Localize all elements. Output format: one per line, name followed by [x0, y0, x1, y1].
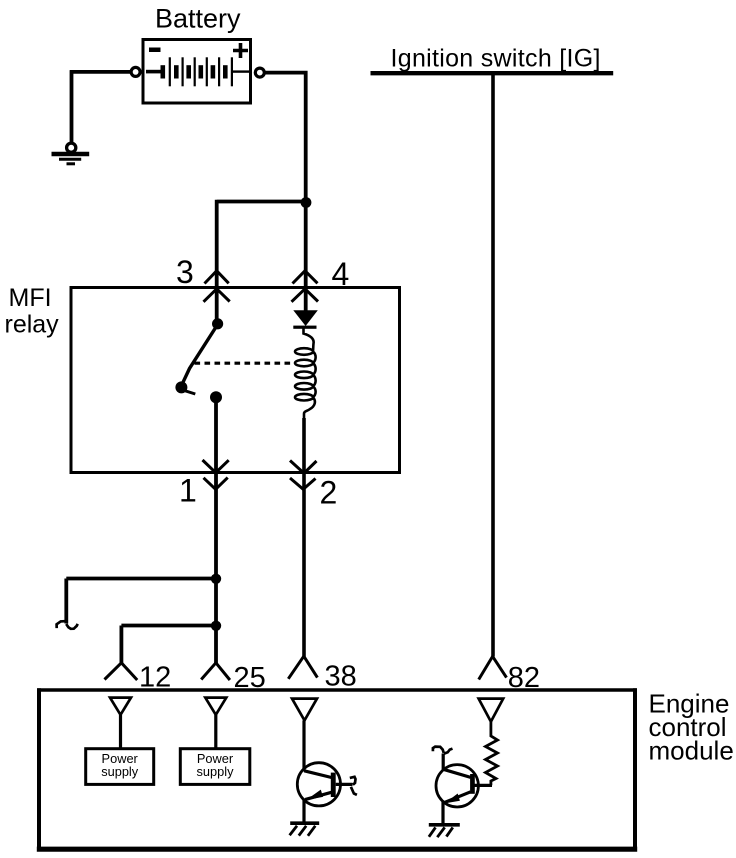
ground symbol top-left — [52, 143, 90, 164]
pin 25 fork — [201, 663, 230, 680]
svg-text:Enginecontrolmodule: Enginecontrolmodule — [649, 689, 734, 766]
pin 82 fork — [479, 656, 507, 679]
svg-text:Battery: Battery — [155, 4, 241, 34]
transistor Q2 base bar — [470, 774, 475, 794]
wire branch to pin 12 fork — [121, 626, 216, 664]
engine control module box — [37, 688, 637, 851]
resistor R1 — [486, 722, 498, 786]
wire battery negative to ground — [70, 70, 131, 143]
svg-text:Ignition switch [IG]: Ignition switch [IG] — [391, 44, 601, 72]
wire node A to pin 3 — [217, 200, 306, 319]
battery terminal circle left — [131, 67, 140, 76]
transistor Q1 base break squiggle — [350, 777, 357, 795]
ignition switch feed line — [371, 71, 614, 75]
transistor Q2 collector diagonal — [443, 769, 470, 777]
pin 2 connector chevrons — [290, 461, 317, 490]
relay coil diode — [293, 310, 318, 329]
svg-text:38: 38 — [325, 661, 357, 693]
battery cells — [146, 57, 250, 86]
pin 3 connector chevrons — [204, 271, 230, 302]
pin 38 fork — [288, 656, 317, 679]
relay switch blade tip dot — [175, 381, 187, 393]
svg-text:Powersupply: Powersupply — [197, 751, 235, 779]
battery terminal circle right — [255, 68, 264, 77]
power supply box 1 — [86, 749, 154, 785]
relay switch common dot — [212, 318, 223, 329]
ground Q2 — [429, 825, 460, 837]
node A junction dot — [301, 197, 312, 208]
transistor Q1 base bar — [331, 773, 336, 797]
svg-text:Powersupply: Powersupply — [101, 751, 139, 779]
relay actuation dashed link — [195, 362, 297, 365]
relay switch blade tail — [182, 390, 195, 394]
transistor Q1 circle — [297, 763, 340, 806]
transistor Q2 collector break squiggle — [433, 747, 453, 754]
wire pin 25 to power supply — [214, 715, 217, 749]
junction dot lower left branch — [211, 621, 221, 631]
pin 1 connector chevrons — [203, 460, 229, 489]
relay switch contact dot — [210, 391, 222, 403]
pin 38 board triangle — [292, 699, 317, 721]
junction dot upper left branch — [211, 574, 221, 584]
wire branch to break symbol — [66, 579, 216, 624]
svg-text:MFIrelay: MFIrelay — [5, 284, 60, 339]
pin 12 fork — [105, 663, 138, 680]
transistor Q2 emitter diagonal — [444, 792, 471, 803]
svg-text:1: 1 — [179, 473, 197, 509]
pin 12 board triangle — [110, 698, 131, 715]
wire pin 38 to transistor Q1 collector — [302, 720, 305, 771]
battery box — [143, 40, 251, 104]
battery plus sign — [233, 43, 248, 58]
svg-text:2: 2 — [320, 475, 338, 511]
wire battery positive to node A — [264, 71, 306, 311]
transistor Q1 emitter diagonal — [305, 792, 332, 799]
wire ignition to pin 82 — [491, 75, 495, 657]
wire Q1 emitter to ground — [302, 799, 305, 822]
wire break squiggle lower left — [57, 621, 78, 629]
battery minus sign — [149, 48, 161, 53]
wire pin 12 to power supply — [119, 715, 122, 749]
wire resistor to Q2 base — [475, 784, 493, 787]
transistor Q1 base lead — [336, 783, 353, 786]
MFI relay box — [71, 288, 400, 473]
wire break to Q2 collector — [442, 754, 445, 771]
pin 4 connector chevrons — [292, 271, 319, 302]
svg-text:4: 4 — [332, 256, 350, 292]
power supply box 2 — [180, 749, 250, 785]
wire coil to pin 38 fork — [302, 418, 306, 657]
pin 25 board triangle — [205, 698, 226, 715]
wire relay contact to pin 25 fork — [214, 397, 218, 663]
svg-text:3: 3 — [176, 254, 194, 290]
transistor Q1 collector diagonal — [304, 771, 331, 778]
ground Q1 — [290, 823, 320, 836]
pin 82 board triangle — [479, 699, 504, 722]
transistor Q2 emitter arrow — [445, 794, 460, 804]
wire Q2 emitter to ground — [441, 802, 444, 824]
transistor Q2 circle — [436, 765, 478, 807]
relay coil winding — [295, 329, 316, 421]
transistor Q1 emitter arrow — [306, 790, 323, 800]
relay switch blade — [182, 325, 218, 386]
